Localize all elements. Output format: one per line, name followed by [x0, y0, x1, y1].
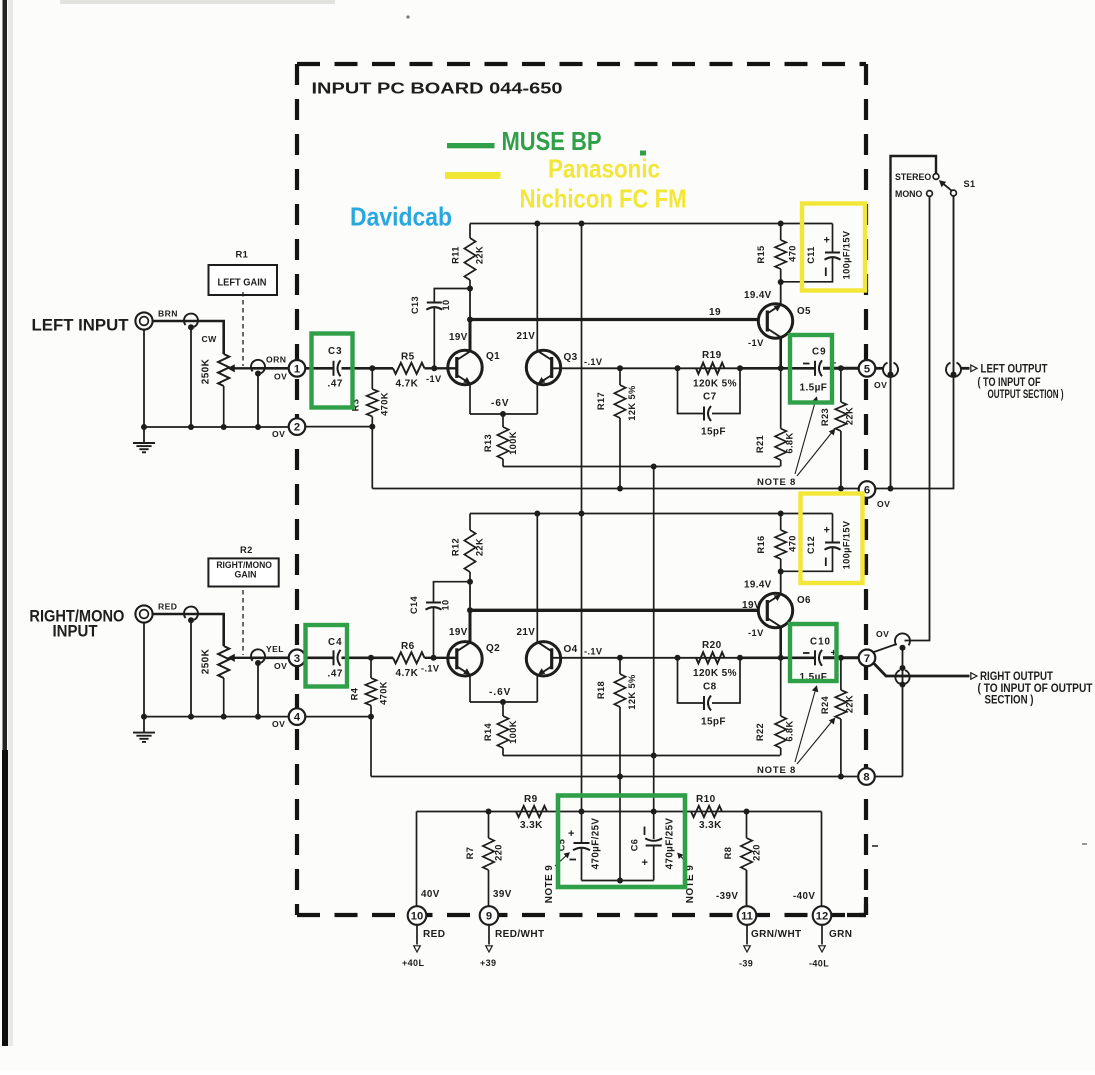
terminal 11: [738, 906, 757, 925]
label section close: [985, 693, 1034, 707]
svg-text:R23: R23: [820, 408, 830, 426]
wire arrow +39: [486, 925, 493, 952]
label NOTE 8 ch1: [757, 477, 796, 488]
svg-text:21V: 21V: [517, 627, 536, 638]
svg-text:12K 5%: 12K 5%: [627, 385, 637, 421]
label R23: [820, 408, 830, 426]
dashed link R2 to pot: [242, 590, 244, 655]
resistor R17 12K 5%: [614, 365, 625, 491]
label NOTE 9 right: [678, 854, 696, 904]
wire Q2 emitter: [469, 675, 471, 702]
wire C3 to R5: [342, 365, 394, 371]
svg-text:R18: R18: [596, 681, 606, 699]
node 4: [289, 708, 306, 725]
vertical rail x581 supply: [579, 224, 585, 815]
label 4.7K ch2: [396, 668, 419, 679]
label RIGHT OUTPUT: [980, 669, 1054, 683]
wire Q1 emitter: [469, 384, 471, 414]
svg-text:120K 5%: 120K 5%: [693, 379, 737, 390]
scan smudge top: [60, 0, 1087, 847]
resistor R23 22K: [835, 368, 846, 491]
transistor Q5: [758, 304, 792, 338]
svg-text:-39: -39: [739, 959, 753, 969]
label OV node4: [272, 719, 285, 729]
connector lug on left input wire: [184, 314, 198, 331]
wire Q4 emitter: [536, 675, 538, 702]
ground bus left ch1: [141, 330, 289, 430]
connector socket mono right: [895, 633, 910, 650]
wire Q4 base to output node: [552, 657, 815, 659]
wire mono feed down: [905, 197, 930, 641]
label Q1: [486, 351, 500, 362]
wire bus left to terminal 10: [416, 812, 418, 907]
svg-text:RIGHT/MONO: RIGHT/MONO: [216, 560, 272, 570]
wire wiper lug to ground bus ch2: [257, 662, 259, 717]
wire arrow +40L: [414, 925, 421, 952]
svg-text:C9: C9: [812, 347, 827, 358]
label C9: [812, 347, 827, 358]
svg-text:R2: R2: [240, 545, 253, 555]
svg-text:R20: R20: [702, 640, 722, 651]
label -.1V ch1: [584, 357, 603, 367]
ground symbol ch2: [133, 717, 155, 742]
label OV wiper right: [274, 661, 287, 671]
wire Q1 collector: [467, 289, 473, 352]
label OV node2: [272, 429, 285, 439]
label .47: [328, 379, 343, 390]
resistor R19 120K 5%: [675, 363, 744, 374]
svg-text:21V: 21V: [517, 331, 536, 342]
label R5: [401, 352, 415, 363]
svg-text:C12: C12: [806, 536, 816, 554]
svg-text:3: 3: [294, 653, 300, 665]
pot wiper arrow left: [229, 365, 254, 371]
resistor R11 22K: [464, 224, 475, 292]
label C13: [410, 296, 420, 314]
resistor R6 4.7K: [393, 652, 425, 663]
wire jack to pot top: [153, 321, 224, 354]
label plus C6: [642, 857, 649, 869]
label plus C11: [824, 235, 831, 247]
yellow box around C11: [802, 204, 865, 291]
transistor Q3: [526, 350, 560, 384]
capacitor C4 .47: [334, 650, 341, 666]
label R20: [702, 640, 722, 651]
svg-text:OV: OV: [274, 661, 287, 671]
svg-text:6.8K: 6.8K: [785, 720, 795, 741]
terminal 12: [813, 906, 832, 925]
gain box R1: [209, 265, 278, 295]
label R17: [596, 392, 606, 410]
svg-text:3.3K: 3.3K: [699, 820, 722, 831]
wire common to left output socket: [953, 196, 955, 372]
rail 0V node8: [371, 776, 903, 778]
svg-text:1: 1: [294, 363, 300, 375]
resistor R14 100K: [497, 702, 508, 756]
svg-text:STEREO: STEREO: [895, 172, 931, 182]
label to input of output: [978, 681, 1094, 695]
svg-text:-.1V: -.1V: [421, 664, 440, 674]
svg-text:12: 12: [816, 911, 828, 923]
label R16: [756, 535, 766, 553]
svg-text:C11: C11: [806, 246, 816, 264]
svg-text:-1V: -1V: [748, 628, 764, 638]
svg-text:22K: 22K: [845, 407, 855, 425]
label R1: [236, 250, 249, 260]
node 6: [859, 481, 876, 498]
label RIGHT/MONO INPUT: [29, 607, 124, 641]
svg-text:+: +: [568, 828, 575, 840]
svg-text:C13: C13: [410, 296, 420, 314]
svg-text:-.1V: -.1V: [584, 647, 603, 657]
svg-text:R4: R4: [350, 687, 360, 700]
svg-text:22K: 22K: [475, 246, 485, 264]
svg-text:R24: R24: [820, 695, 830, 714]
transistor Q2: [448, 642, 482, 676]
label 19.4V ch1: [744, 290, 772, 301]
label R18: [596, 681, 606, 699]
svg-text:Q1: Q1: [486, 351, 500, 362]
svg-text:-40L: -40L: [809, 959, 829, 969]
wire Q3 base to output node: [552, 367, 815, 369]
svg-text:-6V: -6V: [491, 398, 510, 409]
svg-text:S1: S1: [964, 179, 976, 189]
svg-text:C7: C7: [703, 392, 717, 403]
resistor R10 3.3K: [691, 806, 722, 817]
label NOTE 9 left: [544, 853, 569, 903]
label OV node6: [877, 499, 890, 509]
wire C10 to node7: [823, 655, 859, 661]
svg-text:4.7K: 4.7K: [396, 379, 419, 390]
label plus C12: [824, 525, 831, 537]
rail -6V ch1: [470, 411, 537, 417]
capacitor C5 470uF/25V: [573, 812, 590, 881]
svg-text:R6: R6: [401, 641, 415, 652]
svg-text:C14: C14: [409, 595, 419, 614]
svg-text:O5: O5: [797, 306, 811, 317]
wire Q6 emitter up: [778, 569, 784, 595]
green box around C4: [306, 625, 348, 687]
connector lug on wiper wire ch2: [251, 649, 265, 666]
svg-text:CW: CW: [202, 334, 218, 344]
svg-text:470K: 470K: [379, 681, 389, 705]
label 12K 5% r18: [627, 674, 637, 710]
label -1V q1 base: [426, 374, 442, 384]
pot wiper arrow right: [229, 655, 254, 661]
label 470uF/25V c5: [591, 818, 602, 870]
label R14: [483, 722, 493, 741]
svg-text:1.5µF: 1.5µF: [800, 383, 828, 394]
label R22: [755, 723, 765, 741]
svg-text:.47: .47: [328, 669, 343, 680]
svg-text:OV: OV: [877, 499, 890, 509]
label R10: [696, 794, 716, 805]
note8 arrows ch1: [795, 398, 835, 477]
svg-text:C3: C3: [328, 346, 343, 357]
label R11: [451, 246, 461, 264]
svg-text:BRN: BRN: [158, 309, 178, 319]
label 39V: [493, 889, 512, 900]
svg-text:Q2: Q2: [486, 643, 500, 654]
wire R6 to Q2 base: [425, 655, 457, 661]
svg-text:-.6V: -.6V: [489, 687, 511, 698]
label 100uF/15V c12: [842, 520, 852, 569]
wire lug to ground bus: [190, 325, 192, 427]
svg-text:GRN/WHT: GRN/WHT: [751, 929, 802, 940]
svg-text:+39: +39: [480, 958, 496, 968]
svg-text:-1V: -1V: [426, 374, 442, 384]
label minus C6: [644, 827, 646, 836]
connector lug on right input wire: [184, 607, 198, 624]
label RED: [158, 602, 177, 612]
label C11: [806, 246, 816, 264]
label Q2: [486, 643, 500, 654]
svg-text:MONO: MONO: [895, 189, 923, 199]
svg-text:.47: .47: [328, 379, 343, 390]
svg-text:R21: R21: [755, 435, 765, 453]
label minus C10: [803, 652, 810, 654]
label 470K ch2: [379, 681, 389, 705]
label 22K r12: [475, 538, 485, 556]
svg-text:-1V: -1V: [748, 338, 764, 348]
svg-text:10: 10: [441, 599, 451, 610]
svg-text:R7: R7: [465, 847, 475, 860]
wire node7 to mono socket: [873, 644, 897, 653]
label 15pF: [701, 427, 726, 438]
label 19.4V ch2: [744, 580, 772, 591]
label to input of: [978, 375, 1041, 389]
ground symbol ch1: [133, 427, 155, 452]
label C4: [328, 637, 343, 648]
wire R5 to Q1 base: [425, 365, 457, 371]
label OV node5: [874, 380, 887, 390]
svg-text:220: 220: [494, 844, 504, 861]
svg-text:OV: OV: [272, 719, 285, 729]
resistor R8 220: [741, 812, 752, 907]
label plus C10: [831, 648, 837, 659]
label 100K r13: [508, 431, 518, 455]
node 2: [289, 418, 306, 435]
switch S1 stereo contact: [933, 174, 939, 180]
resistor R15 470: [775, 224, 786, 283]
wire stereo feed up: [891, 156, 937, 372]
label LEFT OUTPUT: [981, 362, 1049, 376]
wire right sockets to node8 rail: [902, 646, 904, 777]
resistor R24 22K: [835, 658, 846, 780]
svg-text:INPUT: INPUT: [53, 622, 99, 641]
capacitor C10 1.5uF: [815, 650, 822, 666]
svg-text:R15: R15: [756, 245, 766, 263]
wire drive Q2 to Q6 base: [470, 609, 758, 612]
svg-text:OV: OV: [274, 372, 287, 382]
label +40L: [402, 958, 424, 968]
label R15: [756, 245, 766, 263]
label 100K r14: [508, 720, 518, 744]
label C3: [328, 346, 343, 357]
wire arrow -40L: [819, 925, 826, 952]
svg-text:+: +: [642, 857, 649, 869]
svg-text:22K: 22K: [475, 538, 485, 556]
label 220 r8: [752, 844, 762, 861]
label -.6V: [489, 687, 511, 698]
wire Q3 emitter: [536, 384, 538, 414]
svg-text:7: 7: [864, 653, 870, 665]
label 470 r16: [788, 535, 798, 552]
svg-text:C10: C10: [810, 637, 831, 648]
svg-text:SECTION ): SECTION ): [985, 693, 1034, 707]
svg-text:Nichicon FC FM: Nichicon FC FM: [520, 184, 687, 214]
wire bus right to terminal 12: [821, 812, 823, 907]
resistor R9 3.3K: [516, 806, 547, 817]
svg-text:3.3K: 3.3K: [520, 820, 543, 831]
resistor R18 12K 5%: [614, 655, 625, 884]
label R7: [465, 847, 475, 860]
svg-text:15pF: 15pF: [701, 427, 726, 438]
capacitor C6 470uF/25V: [645, 812, 662, 881]
wire lug to ground bus ch2: [190, 619, 192, 717]
label -.1V q2 base: [421, 664, 440, 674]
label 470K ch1: [380, 392, 390, 416]
svg-text:15pF: 15pF: [701, 717, 726, 728]
label CW: [202, 334, 218, 344]
svg-text:+: +: [824, 525, 831, 537]
rail top ch1: [470, 221, 833, 227]
svg-text:Davidcab: Davidcab: [350, 202, 452, 232]
legend label Davidcab: [350, 202, 452, 232]
resistor R16 470: [775, 514, 786, 572]
label RED t10: [423, 929, 445, 940]
svg-text:R11: R11: [451, 246, 461, 264]
label R8: [723, 847, 733, 860]
node 3: [289, 650, 306, 667]
svg-text:OV: OV: [874, 380, 887, 390]
svg-text:OV: OV: [876, 629, 889, 639]
label minus C9: [803, 363, 810, 365]
label 120K 5% r20: [693, 668, 737, 679]
label STEREO: [895, 172, 931, 182]
switch S1 mono contact: [927, 191, 933, 197]
label plus C5: [568, 828, 575, 840]
scan edge artifact left bar: [2, 0, 13, 1046]
label R12: [451, 538, 461, 556]
legend label MUSE BP: [502, 126, 647, 156]
label C10: [810, 637, 831, 648]
svg-text:R14: R14: [483, 722, 493, 741]
potentiometer 250K left: [218, 354, 229, 427]
svg-text:Q3: Q3: [564, 352, 578, 363]
svg-text:6: 6: [864, 485, 870, 497]
label -40V: [793, 891, 815, 902]
power bus: [417, 809, 822, 815]
svg-text:470K: 470K: [380, 392, 390, 416]
input jack J2 right: [135, 605, 152, 622]
svg-text:C4: C4: [328, 637, 343, 648]
svg-text:100µF/15V: 100µF/15V: [842, 520, 852, 569]
svg-text:4.7K: 4.7K: [396, 668, 419, 679]
svg-text:R5: R5: [401, 352, 415, 363]
capacitor C3 .47: [334, 360, 341, 376]
wire wiper lug to ground bus: [257, 372, 259, 427]
label -.1V ch2: [584, 647, 603, 657]
svg-text:R22: R22: [755, 723, 765, 741]
svg-text:R1: R1: [236, 250, 249, 260]
svg-text:470: 470: [788, 535, 798, 552]
label RED/WHT t9: [495, 929, 544, 940]
label GRN/WHT t11: [751, 929, 802, 940]
svg-text:R12: R12: [451, 538, 461, 556]
label 4.7K: [396, 379, 419, 390]
svg-text:R16: R16: [756, 535, 766, 553]
svg-text:470: 470: [788, 245, 798, 262]
label minus C5: [570, 859, 577, 861]
svg-text:11: 11: [741, 911, 753, 923]
legend label Panasonic: [548, 154, 660, 184]
svg-text:40V: 40V: [421, 889, 440, 900]
label plus C9: [831, 359, 837, 370]
wire Q3 collector: [536, 224, 538, 352]
svg-text:19V: 19V: [449, 332, 468, 343]
label 10 ch1: [441, 299, 451, 310]
capacitor C13 10: [426, 289, 470, 369]
transistor Q1: [448, 350, 482, 384]
vertical rail x654 to C6: [651, 467, 657, 815]
input jack J1 left: [135, 312, 152, 329]
wire arrow -39: [744, 925, 751, 952]
label R21: [755, 435, 765, 453]
wire Q2 collector: [467, 582, 473, 643]
connector lug on wiper wire: [251, 360, 265, 377]
svg-text:250K: 250K: [201, 358, 212, 384]
label output section: [988, 387, 1064, 401]
label 22K r24: [845, 695, 855, 713]
label R3: [351, 399, 361, 412]
svg-text:C6: C6: [630, 839, 640, 852]
svg-text:OV: OV: [272, 429, 285, 439]
svg-text:5: 5: [864, 363, 870, 375]
label 470 r15: [788, 245, 798, 262]
label -1V q6: [748, 628, 764, 638]
svg-text:RED: RED: [423, 929, 445, 940]
svg-text:100µF/15V: 100µF/15V: [842, 230, 852, 279]
label 19V on drive wire ch2: [742, 600, 761, 611]
terminal 10: [408, 906, 427, 925]
svg-text:NOTE 8: NOTE 8: [757, 477, 796, 488]
wire socket to node6 rail: [875, 375, 953, 489]
svg-text:LEFT OUTPUT: LEFT OUTPUT: [981, 362, 1049, 376]
label OV node7: [876, 629, 889, 639]
label 6.8K r22: [785, 720, 795, 741]
capacitor C14 10: [426, 582, 471, 658]
svg-text:INPUT PC BOARD 044-650: INPUT PC BOARD 044-650: [312, 81, 563, 98]
label R2: [240, 545, 253, 555]
label R9: [524, 794, 538, 805]
svg-text:2: 2: [294, 422, 300, 434]
svg-text:220: 220: [752, 844, 762, 861]
label C14: [409, 595, 419, 614]
svg-text:19V: 19V: [449, 627, 468, 638]
rail -.6V ch2: [470, 699, 537, 705]
svg-text:8: 8: [863, 772, 869, 784]
node 5: [859, 360, 876, 377]
label 19 on drive wire: [709, 307, 721, 318]
legend yellow swatch: [445, 172, 501, 179]
capacitor C7 15pF: [678, 368, 741, 421]
label 21V ch2: [517, 627, 536, 638]
label ORN: [266, 355, 286, 365]
label 40V: [421, 889, 440, 900]
label 10 ch2: [441, 599, 451, 610]
wire terminal 11 up: [746, 870, 748, 906]
